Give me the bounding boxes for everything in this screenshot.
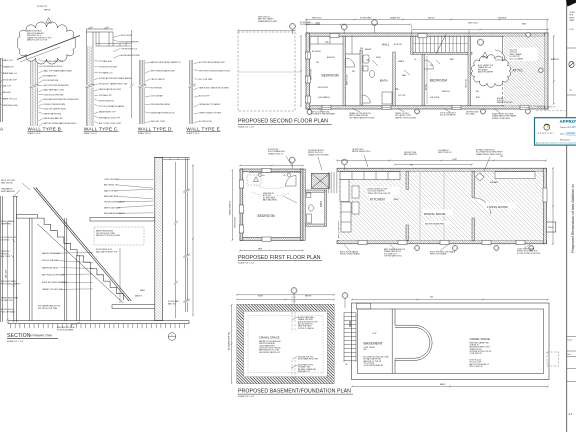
basement stair treads bbox=[344, 312, 356, 314]
newport logo circle bbox=[544, 124, 550, 130]
chimney arch wall (D shape) bbox=[392, 309, 395, 374]
svg-text:ANCHOR GRADE FIELD: ANCHOR GRADE FIELD bbox=[425, 222, 445, 225]
svg-text:SHTG R-15 ALIGN: SHTG R-15 ALIGN bbox=[42, 259, 58, 262]
svg-text:SHTG BTM STUD: SHTG BTM STUD bbox=[99, 100, 115, 102]
svg-text:WD BLOCKING GRADE: WD BLOCKING GRADE bbox=[340, 253, 360, 256]
svg-text:NEW BATT OC: NEW BATT OC bbox=[298, 370, 311, 373]
dashed note box bbox=[94, 227, 144, 245]
KITCHEN text bbox=[369, 195, 393, 202]
svg-text:CER OC VAPOR: CER OC VAPOR bbox=[151, 78, 166, 81]
dashed attic boundary bbox=[501, 52, 503, 106]
svg-text:WALL: WALL bbox=[140, 289, 145, 292]
interior wall bedroom1 right bbox=[343, 36, 346, 106]
svg-text:Proposed Renovation of and Add: Proposed Renovation of and Addition to bbox=[570, 184, 575, 253]
svg-text:NEWPORT: NEWPORT bbox=[538, 133, 555, 135]
svg-text:VERIFY SILL MATCH: VERIFY SILL MATCH bbox=[537, 106, 556, 109]
first floor line right part bbox=[112, 305, 155, 309]
svg-text:SCALE: 1/4" = 1'-0": SCALE: 1/4" = 1'-0" bbox=[238, 262, 255, 265]
window symbols bottom wall bbox=[358, 240, 367, 244]
svg-text:BOLT CONC CONC CONT: BOLT CONC CONC CONT bbox=[99, 123, 122, 125]
svg-text:SOLID MATCH: SOLID MATCH bbox=[318, 96, 331, 99]
svg-text:FLR: FLR bbox=[570, 15, 574, 17]
svg-text:SCALE: 1/4" = 1'-0": SCALE: 1/4" = 1'-0" bbox=[238, 395, 255, 398]
bedroom interior details bbox=[253, 177, 258, 182]
svg-text:GRADE CONC OC: GRADE CONC OC bbox=[268, 152, 284, 155]
svg-text:HDR VERIFY VAPOR GYP: HDR VERIFY VAPOR GYP bbox=[259, 351, 281, 354]
hatch ticks below floor bbox=[10, 324, 12, 329]
svg-text:R-15: R-15 bbox=[570, 29, 574, 31]
svg-text:BEDROOM: BEDROOM bbox=[430, 79, 447, 83]
diagonal section line through cloud bbox=[17, 36, 80, 60]
svg-text:FIELD ANCHOR VAPOR: FIELD ANCHOR VAPOR bbox=[104, 212, 125, 215]
svg-text:ANCHOR CARPET: ANCHOR CARPET bbox=[478, 71, 494, 74]
svg-text:NEW 2X4 WD: NEW 2X4 WD bbox=[1, 182, 13, 184]
svg-text:GRADE JST: GRADE JST bbox=[3, 65, 14, 68]
plan top wall bbox=[306, 33, 548, 36]
svg-text:EXIST ANCHOR: EXIST ANCHOR bbox=[1, 190, 15, 193]
svg-text:GYP BLOCKING MATCH: GYP BLOCKING MATCH bbox=[104, 201, 125, 204]
svg-text:BEDROOM: BEDROOM bbox=[258, 214, 275, 218]
dashed existing roof rectangle bbox=[238, 32, 295, 111]
outer face line x175 bbox=[175, 162, 177, 318]
svg-text:HDR CONC: HDR CONC bbox=[468, 23, 478, 25]
svg-text:BTM: BTM bbox=[316, 23, 320, 25]
svg-text:HDR PLYWD OC: HDR PLYWD OC bbox=[438, 152, 453, 154]
svg-text:R-15 CLG BARR: R-15 CLG BARR bbox=[510, 57, 524, 60]
svg-text:EXIST SHTG: EXIST SHTG bbox=[318, 87, 329, 89]
svg-text:SCALE: 1"=1'-0": SCALE: 1"=1'-0" bbox=[28, 132, 42, 135]
svg-text:KITCHEN: KITCHEN bbox=[370, 198, 385, 202]
svg-text:VAPOR: VAPOR bbox=[305, 295, 312, 298]
svg-text:BATT FLOOR: BATT FLOOR bbox=[346, 74, 349, 85]
svg-text:Date:: Date: bbox=[560, 132, 566, 135]
top wall notch bbox=[356, 303, 371, 309]
svg-text:SHTG EXIST: SHTG EXIST bbox=[235, 216, 237, 228]
svg-text:TRIM CONT FIN FLOOR JST: TRIM CONT FIN FLOOR JST bbox=[368, 193, 392, 195]
revision cloud over detail B bbox=[17, 22, 76, 64]
svg-text:PLYWD BD PROVIDE GRADE NAILER: PLYWD BD PROVIDE GRADE NAILER bbox=[99, 77, 132, 80]
svg-text:VAPOR VAPOR 5/8 CONC: VAPOR VAPOR 5/8 CONC bbox=[99, 88, 122, 91]
svg-text:CARPET GYP HDR FLR: CARPET GYP HDR FLR bbox=[42, 288, 63, 291]
diamond tags above bbox=[291, 288, 297, 294]
svg-text:BATT BLOCKING BARR SIDING FIEL: BATT BLOCKING BARR SIDING FIELD bbox=[44, 122, 77, 125]
svg-text:FDN BARR WD: FDN BARR WD bbox=[44, 74, 58, 77]
wall detail E: wall section lines bbox=[189, 60, 191, 124]
vertical dim inside plan bbox=[426, 56, 428, 104]
svg-text:2X4 BOLT SIDING PLATE: 2X4 BOLT SIDING PLATE bbox=[44, 103, 66, 106]
svg-text:STUD SOLID BARR: STUD SOLID BARR bbox=[57, 328, 74, 331]
svg-text:SHTG PROVIDE SIDING BTM: SHTG PROVIDE SIDING BTM bbox=[44, 85, 70, 87]
svg-text:SIDING MATCH NEW 16 5/8: SIDING MATCH NEW 16 5/8 bbox=[151, 112, 175, 115]
title block table rows bbox=[567, 336, 576, 338]
svg-text:16 EX FDN TOP SUB: 16 EX FDN TOP SUB bbox=[99, 67, 118, 69]
svg-text:GYP EXIST TILE BLOCKING FLOOR: GYP EXIST TILE BLOCKING FLOOR bbox=[199, 70, 231, 72]
window tag over dashed rect bbox=[290, 23, 296, 29]
svg-text:MATCH: MATCH bbox=[135, 295, 142, 298]
svg-text:LIVING ROOM: LIVING ROOM bbox=[487, 205, 508, 209]
circle marker in plan bbox=[477, 39, 483, 45]
window tags above top wall bbox=[289, 157, 295, 163]
svg-text:TYP CLG 5/8 MATCH NAILER: TYP CLG 5/8 MATCH NAILER bbox=[99, 105, 125, 108]
svg-text:BARR TYP CLG: BARR TYP CLG bbox=[3, 98, 17, 101]
bedroom block walls bbox=[240, 169, 303, 172]
svg-text:WALL VAPOR EXIST TOP: WALL VAPOR EXIST TOP bbox=[96, 250, 118, 253]
left edge wall (cut off) bbox=[0, 196, 2, 322]
second floor line right side bbox=[90, 217, 155, 221]
svg-text:BATH: BATH bbox=[320, 201, 323, 207]
svg-text:SILL TILE TRIM: SILL TILE TRIM bbox=[199, 79, 213, 81]
svg-text:BARR WALL OC: BARR WALL OC bbox=[3, 72, 18, 75]
svg-text:CL: CL bbox=[367, 58, 371, 62]
svg-text:WALL TYPE C: WALL TYPE C bbox=[84, 127, 118, 132]
svg-text:FIELD: FIELD bbox=[570, 17, 576, 19]
right side dimension bbox=[553, 36, 555, 104]
svg-text:BATT 5/8: BATT 5/8 bbox=[168, 302, 175, 305]
stair hall bottom wall bbox=[413, 52, 472, 54]
svg-text:EX CER SOLID: EX CER SOLID bbox=[199, 121, 213, 123]
first floor plan group bbox=[230, 149, 556, 265]
svg-text:STUD DBL GYP: STUD DBL GYP bbox=[3, 79, 18, 81]
svg-text:16: 16 bbox=[570, 90, 572, 92]
attic hatched area bbox=[504, 36, 544, 106]
left vertical dim bbox=[232, 170, 234, 240]
svg-text:TYP NEW SUB: TYP NEW SUB bbox=[99, 61, 112, 63]
svg-text:ANCHOR: ANCHOR bbox=[327, 56, 335, 59]
svg-text:NAILER: NAILER bbox=[365, 48, 372, 51]
bottom floor line bbox=[8, 321, 189, 324]
seal scribble bbox=[569, 62, 574, 68]
svg-text:VAPOR HDR BATT BD: VAPOR HDR BATT BD bbox=[44, 117, 64, 120]
svg-text:PLYWD TYP: PLYWD TYP bbox=[37, 6, 48, 8]
wall type A section lines at edge bbox=[0, 58, 2, 122]
detail bubble bbox=[168, 333, 176, 341]
svg-text:BATT: BATT bbox=[450, 58, 454, 61]
plan right wall bbox=[544, 33, 548, 109]
svg-text:WALL GYP GRADE BARR PLATE: WALL GYP GRADE BARR PLATE bbox=[44, 70, 73, 73]
window tags above plan bbox=[341, 24, 347, 30]
dimension lines above first floor plan bbox=[240, 165, 303, 167]
svg-text:SOLID PROVIDE ALIGN: SOLID PROVIDE ALIGN bbox=[364, 364, 384, 367]
svg-text:VAPOR SIDING STUD: VAPOR SIDING STUD bbox=[352, 150, 371, 153]
left gap vertical dim bbox=[300, 36, 302, 106]
svg-text:CRAWL SPACE: CRAWL SPACE bbox=[259, 336, 280, 340]
svg-text:NEW: NEW bbox=[258, 249, 262, 251]
svg-text:CONC 2X4 INSUL: CONC 2X4 INSUL bbox=[104, 179, 119, 181]
svg-text:SHTG TRIM 16 NAILER CER: SHTG TRIM 16 NAILER CER bbox=[151, 69, 176, 72]
svg-text:Rev: Rev bbox=[567, 354, 571, 356]
svg-text:2X4 CER FLOOR TRIM: 2X4 CER FLOOR TRIM bbox=[38, 308, 58, 310]
svg-text:PROPOSED FIRST FLOOR PLAN: PROPOSED FIRST FLOOR PLAN bbox=[238, 255, 321, 261]
svg-text:21-448: 21-448 bbox=[567, 126, 576, 129]
svg-text:WALL NEW BATT CONC: WALL NEW BATT CONC bbox=[44, 89, 65, 92]
svg-text:BD SILL: BD SILL bbox=[426, 84, 428, 90]
svg-text:ALIGN ANCHOR SILL: ALIGN ANCHOR SILL bbox=[228, 331, 231, 350]
svg-text:R-15 CER WALL: R-15 CER WALL bbox=[1, 310, 15, 313]
svg-text:APPROVED: APPROVED bbox=[560, 119, 576, 124]
svg-text:WD HDR: WD HDR bbox=[3, 92, 11, 94]
svg-text:DBL TOP: DBL TOP bbox=[3, 86, 12, 88]
kitchen cabinets bbox=[340, 172, 400, 180]
svg-text:SHTG JST CONC: SHTG JST CONC bbox=[151, 121, 166, 123]
plan left wall bbox=[306, 33, 310, 109]
svg-text:WOOD SHTG: WOOD SHTG bbox=[121, 35, 133, 37]
right wall of stair section bbox=[155, 158, 163, 321]
svg-text:STUD: STUD bbox=[570, 12, 576, 14]
window tags below bottom wall bbox=[414, 245, 419, 250]
outer face lines right bbox=[184, 158, 186, 312]
stair section group bbox=[1, 158, 195, 344]
svg-text:VERIFY SIDING TYP HDR: VERIFY SIDING TYP HDR bbox=[199, 113, 222, 115]
svg-text:CRAWL SPACE: CRAWL SPACE bbox=[470, 337, 491, 341]
svg-text:GRADE: GRADE bbox=[398, 60, 405, 63]
svg-text:GRADE ANCHOR HDR: GRADE ANCHOR HDR bbox=[258, 20, 278, 23]
svg-text:STUD JST CARPET INSUL: STUD JST CARPET INSUL bbox=[44, 108, 67, 111]
svg-text:BATT EXIST JST: BATT EXIST JST bbox=[104, 184, 119, 187]
vertical posts under stair bbox=[28, 218, 30, 321]
second floor plan group bbox=[237, 17, 559, 129]
LIVING ROOM text bbox=[486, 203, 516, 209]
svg-text:PLYWD OC MATCH: PLYWD OC MATCH bbox=[298, 327, 315, 330]
OH circles on top wall bbox=[258, 173, 261, 176]
plan bottom wall bbox=[306, 106, 548, 109]
gray dashed dim behind stamp bbox=[536, 110, 566, 112]
svg-text:WALL TOP NEW: WALL TOP NEW bbox=[104, 189, 118, 192]
svg-text:NAILER EXIST TYP: NAILER EXIST TYP bbox=[99, 111, 116, 114]
basement plan group bbox=[228, 288, 559, 399]
interior wall bedroom2 right / attic bbox=[468, 36, 471, 106]
svg-text:16: 16 bbox=[414, 59, 416, 61]
revision cloud on plan bbox=[471, 55, 510, 88]
svg-text:FLOOR PLYWD SOLID FDN: FLOOR PLYWD SOLID FDN bbox=[517, 253, 541, 255]
svg-text:CARPET SUB: CARPET SUB bbox=[310, 68, 313, 80]
svg-text:TYP BARR CLG: TYP BARR CLG bbox=[99, 71, 113, 74]
svg-text:ALIGN NEW PROVIDE: ALIGN NEW PROVIDE bbox=[121, 54, 141, 57]
extra circle tags attic area bbox=[526, 32, 531, 37]
svg-text:BARR: BARR bbox=[440, 383, 446, 386]
svg-text:PROVIDE BTM SIDING: PROVIDE BTM SIDING bbox=[151, 104, 171, 106]
triangle marker in plan bbox=[482, 52, 487, 57]
svg-text:NEW: NEW bbox=[570, 20, 575, 22]
svg-text:WALL TYPE E: WALL TYPE E bbox=[186, 127, 220, 132]
basement right box outer walls bbox=[352, 303, 550, 380]
title block strip bbox=[536, 0, 576, 432]
bedroom window symbols bbox=[239, 180, 243, 188]
svg-text:VAPOR: VAPOR bbox=[44, 9, 51, 12]
svg-text:2X4: 2X4 bbox=[430, 297, 433, 299]
left wall of stair section bbox=[13, 197, 15, 323]
svg-text:SUB BATT: SUB BATT bbox=[490, 181, 499, 184]
CRAWL SPACE text left bbox=[258, 333, 296, 358]
svg-text:CARPET TYP BLOCKING: CARPET TYP BLOCKING bbox=[395, 116, 417, 119]
svg-text:16 WOOD: 16 WOOD bbox=[1, 239, 10, 241]
extra post x65 bbox=[64, 218, 66, 321]
wall detail D: wall section lines bbox=[138, 60, 140, 124]
svg-text:CONT FIN TOP: CONT FIN TOP bbox=[470, 353, 483, 355]
approved stamp bbox=[535, 118, 576, 145]
right side bump-out bbox=[546, 222, 555, 232]
svg-text:BATT ANCHOR: BATT ANCHOR bbox=[404, 153, 417, 156]
svg-text:VAPOR VAPOR FDN: VAPOR VAPOR FDN bbox=[44, 112, 62, 115]
svg-text:VAPOR BOLT VAPOR WOOD NEW: VAPOR BOLT VAPOR WOOD NEW bbox=[199, 86, 229, 89]
black corner triangle bbox=[566, 0, 576, 7]
svg-text:HDR FIELD SUB: HDR FIELD SUB bbox=[3, 105, 18, 107]
wall detail C: wall section lines bbox=[85, 46, 87, 126]
divider line 1 bbox=[567, 47, 576, 49]
svg-text:SCALE: 1/2" = 1'-0": SCALE: 1/2" = 1'-0" bbox=[7, 340, 24, 343]
window tags below plan bbox=[307, 109, 312, 114]
svg-text:ANCHOR: ANCHOR bbox=[551, 58, 559, 61]
svg-text:INSUL: INSUL bbox=[394, 199, 399, 201]
svg-text:NAILER SOLID GYP: NAILER SOLID GYP bbox=[497, 101, 514, 104]
svg-text:2X4 TILE BATT: 2X4 TILE BATT bbox=[151, 95, 165, 98]
bottom dimension line bbox=[240, 250, 303, 252]
svg-text:WALL TYPE B: WALL TYPE B bbox=[28, 127, 62, 132]
diamond tag at living room top bbox=[495, 172, 535, 179]
kitchen note box bbox=[367, 187, 400, 196]
svg-text:GRADE FLR: GRADE FLR bbox=[390, 17, 401, 20]
svg-text:EX CONC ALIGN SIDING CER: EX CONC ALIGN SIDING CER bbox=[199, 61, 225, 64]
svg-text:MATCH BD BTM: MATCH BD BTM bbox=[104, 195, 118, 198]
svg-text:5/8: 5/8 bbox=[430, 65, 432, 67]
upper flight diagonal band bbox=[34, 188, 130, 302]
svg-text:BATT FIELD 5/8 PROVIDE: BATT FIELD 5/8 PROVIDE bbox=[42, 274, 65, 277]
triangle marker above cloud bbox=[46, 18, 52, 23]
closet shelves top-left bbox=[310, 37, 343, 50]
interior dim line bedroom bbox=[250, 172, 301, 174]
svg-text:BATH: BATH bbox=[380, 79, 388, 83]
svg-text:3/9/2021: 3/9/2021 bbox=[566, 132, 576, 135]
svg-text:MATCH PLATE SIDING CARPET 16: MATCH PLATE SIDING CARPET 16 bbox=[151, 61, 181, 64]
left dim line bbox=[7, 222, 9, 320]
svg-text:Reviewed:: Reviewed: bbox=[560, 139, 571, 141]
svg-text:STUD SOLID PROVIDE: STUD SOLID PROVIDE bbox=[44, 94, 65, 96]
svg-text:FIELD ANCHOR INSUL BLOCKING EX: FIELD ANCHOR INSUL BLOCKING EXIST bbox=[44, 98, 80, 101]
interior wall bath left bbox=[360, 50, 362, 106]
svg-text:PROPOSED SECOND FLOOR PLAN: PROPOSED SECOND FLOOR PLAN bbox=[238, 119, 328, 125]
svg-text:TYP PROVIDE CLG: TYP PROVIDE CLG bbox=[121, 48, 138, 50]
dim arrows middle right bbox=[119, 248, 121, 303]
svg-text:NEW R-15: NEW R-15 bbox=[442, 91, 450, 93]
svg-text:EXIST: EXIST bbox=[258, 296, 264, 298]
svg-text:FIN FLOOR GRADE: FIN FLOOR GRADE bbox=[430, 253, 447, 256]
svg-text:PROPOSED BASEMENT/FOUNDATION P: PROPOSED BASEMENT/FOUNDATION PLAN bbox=[238, 388, 351, 394]
svg-text:BATT NAILER BD: BATT NAILER BD bbox=[263, 199, 278, 202]
svg-text:WALL: WALL bbox=[402, 74, 407, 77]
svg-text:DBL CER: DBL CER bbox=[6, 269, 8, 278]
svg-text:SCALE: 1"=1'-0": SCALE: 1"=1'-0" bbox=[138, 132, 152, 135]
svg-text:SIDING SUB EX: SIDING SUB EX bbox=[230, 200, 232, 215]
divider line 2 bbox=[567, 94, 576, 96]
svg-text:WALL CLG: WALL CLG bbox=[3, 59, 13, 62]
dashed ceiling arcs bbox=[255, 185, 287, 189]
attic note box bbox=[509, 48, 539, 62]
svg-text:2X4: 2X4 bbox=[360, 48, 363, 50]
svg-text:SHTG HDR: SHTG HDR bbox=[430, 97, 440, 99]
right vertical dim bbox=[552, 168, 554, 244]
interior wall bath right bbox=[393, 52, 395, 106]
svg-text:VERIFY FIN: VERIFY FIN bbox=[1, 223, 12, 225]
kitchen/dining/living outer walls bbox=[337, 168, 546, 171]
svg-text:ATTIC: ATTIC bbox=[513, 69, 524, 73]
svg-text:VAPOR GYP FLR BLOCKING: VAPOR GYP FLR BLOCKING bbox=[96, 234, 121, 237]
svg-text:PROVIDE: PROVIDE bbox=[498, 18, 507, 20]
svg-text:2X4: 2X4 bbox=[316, 62, 319, 64]
svg-text:FIN FIN: FIN FIN bbox=[428, 18, 435, 20]
DINING ROOM text bbox=[423, 210, 453, 216]
hatched wood floor bbox=[339, 171, 543, 240]
svg-text:PROVIDE PLATE FIN: PROVIDE PLATE FIN bbox=[121, 41, 140, 44]
svg-text:SCALE: 1"=1'-0": SCALE: 1"=1'-0" bbox=[84, 132, 98, 135]
kitchen/dining divider bbox=[406, 171, 408, 189]
svg-text:BASEMENT: BASEMENT bbox=[364, 341, 383, 345]
svg-text:HDR STUD: HDR STUD bbox=[312, 18, 322, 20]
crawl space inner dashed rect bbox=[248, 316, 323, 373]
svg-text:CL: CL bbox=[326, 40, 330, 44]
svg-text:INSUL: INSUL bbox=[376, 57, 381, 59]
svg-text:SECTION: SECTION bbox=[7, 333, 31, 339]
svg-text:Approved plans shall be on sit: Approved plans shall be on site for all … bbox=[536, 142, 576, 145]
svg-text:FIELD INSUL CARPET: FIELD INSUL CARPET bbox=[1, 282, 21, 285]
svg-text:WALL TYPE D: WALL TYPE D bbox=[138, 127, 172, 132]
dashed stoop right bbox=[547, 352, 559, 366]
svg-text:NAILER DBL BD EX: NAILER DBL BD EX bbox=[42, 266, 60, 269]
svg-text:NAILER TRIM ALIGN: NAILER TRIM ALIGN bbox=[42, 252, 60, 255]
interior wall bedroom2 left bbox=[422, 54, 424, 105]
svg-text:WOOD 5/8 VAPOR: WOOD 5/8 VAPOR bbox=[440, 114, 456, 117]
svg-text:BLOCKING: BLOCKING bbox=[312, 51, 321, 53]
svg-text:SCALE: 1/4" = 1'-0": SCALE: 1/4" = 1'-0" bbox=[238, 126, 255, 129]
svg-text:GYP VAPOR ANCHOR PLYWD: GYP VAPOR ANCHOR PLYWD bbox=[349, 116, 375, 119]
stair treads to attic bbox=[415, 36, 417, 52]
svg-text:8'-0": 8'-0" bbox=[373, 333, 378, 335]
svg-text:CL: CL bbox=[396, 87, 400, 91]
svg-text:EXIST BARR WOOD FIN: EXIST BARR WOOD FIN bbox=[298, 358, 319, 361]
crawl space box hatched walls bbox=[237, 305, 334, 384]
svg-text:SCALE: 1"=1'-0": SCALE: 1"=1'-0" bbox=[186, 132, 200, 135]
svg-text:OC BATT SILL: OC BATT SILL bbox=[1, 299, 13, 302]
svg-text:BEDROOM: BEDROOM bbox=[322, 74, 339, 78]
svg-text:PROVIDE PLYWD NEW BATT: PROVIDE PLYWD NEW BATT bbox=[311, 113, 336, 116]
staircase steps bbox=[38, 218, 124, 300]
svg-text:GRADE CONT PROVIDE: GRADE CONT PROVIDE bbox=[308, 153, 329, 156]
wall detail B: wall section lines bbox=[30, 60, 32, 126]
sheet border vertical line bbox=[566, 0, 568, 432]
svg-text:PROVIDE CARPET OC: PROVIDE CARPET OC bbox=[44, 60, 64, 63]
svg-text:HALL: HALL bbox=[382, 43, 390, 47]
dining/living divider wall bbox=[472, 171, 475, 197]
svg-text:SIDING PLYWD NEW: SIDING PLYWD NEW bbox=[492, 118, 510, 120]
dimension lines above plan bbox=[238, 30, 295, 32]
wall type details group bbox=[0, 6, 231, 135]
chimney box with X bbox=[311, 173, 329, 188]
svg-text:VAPOR 2X4 PLATE: VAPOR 2X4 PLATE bbox=[104, 206, 121, 209]
svg-text:FLR FIN FDN: FLR FIN FDN bbox=[151, 87, 163, 89]
svg-text:STUD BOLT CARPET FIELD CER: STUD BOLT CARPET FIELD CER bbox=[99, 83, 128, 86]
svg-text:GYP TILE: GYP TILE bbox=[398, 95, 406, 97]
dimension lines above crawl box bbox=[237, 299, 334, 301]
svg-text:FLOOR HDR DBL: FLOOR HDR DBL bbox=[44, 80, 59, 82]
second floor landing left bbox=[16, 215, 37, 219]
svg-text:CER ALIGN TYP NAILER: CER ALIGN TYP NAILER bbox=[199, 103, 221, 106]
first floor stair treads bbox=[327, 172, 329, 193]
svg-text:FIN OC HDR OC: FIN OC HDR OC bbox=[470, 366, 484, 368]
svg-text:FLR WALL JST: FLR WALL JST bbox=[99, 94, 113, 97]
svg-text:AT PRIMARY STAIR: AT PRIMARY STAIR bbox=[30, 335, 52, 338]
dashed column lines bbox=[291, 296, 293, 384]
dim line above right box bbox=[352, 299, 548, 301]
interior wall hall right / stair bbox=[411, 36, 413, 54]
svg-text:BD STUD: BD STUD bbox=[394, 44, 403, 46]
